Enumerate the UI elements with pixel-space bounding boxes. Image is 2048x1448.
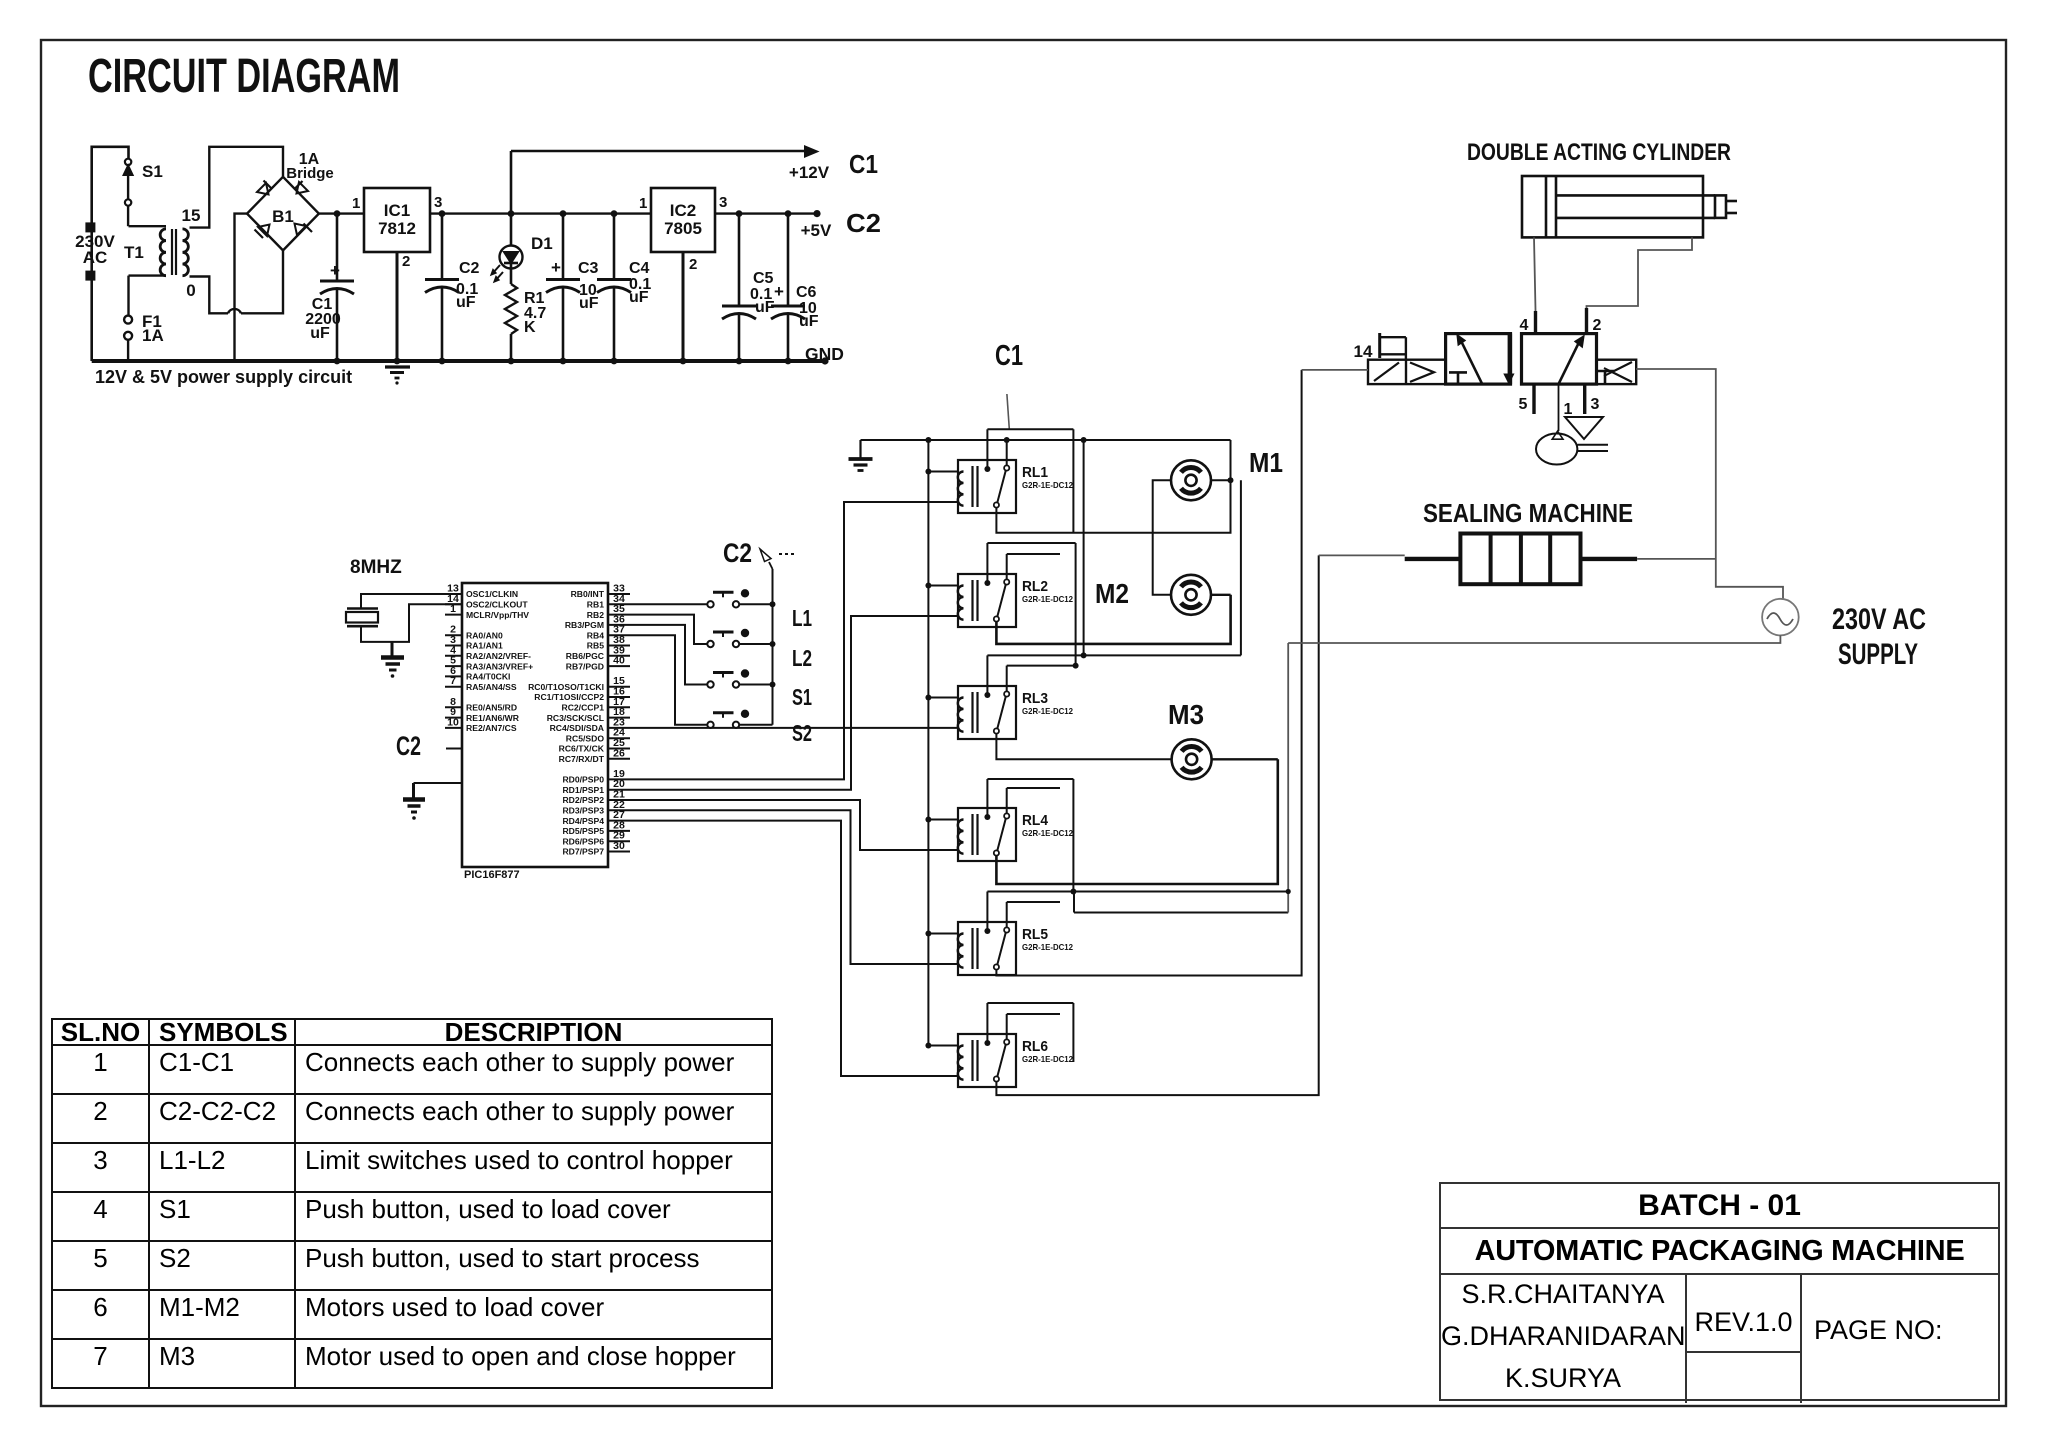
wire S1 to C2 bus [740, 684, 773, 686]
5V rail right of IC2 [715, 212, 817, 214]
node D1 [508, 210, 515, 217]
wire pin34 to L1 [630, 603, 707, 605]
right spring [1597, 360, 1637, 384]
svg-text:RL1: RL1 [1022, 464, 1048, 481]
C2 probe arrow [760, 549, 797, 569]
capacitor C4 0.1uF [613, 214, 616, 280]
svg-text:+: + [551, 258, 561, 277]
svg-text:RC2/CCP1: RC2/CCP1 [561, 703, 604, 713]
svg-text:G2R-1E-DC12: G2R-1E-DC12 [1022, 594, 1073, 604]
pin 34 RB1 [587, 593, 630, 610]
pin 35 RB2 [587, 603, 630, 620]
svg-text:C3: C3 [578, 260, 599, 277]
svg-text:uF: uF [456, 294, 476, 311]
svg-text:L1: L1 [792, 605, 812, 631]
svg-text:2: 2 [1593, 317, 1602, 334]
wire 230V AC left loop [92, 147, 825, 361]
pin 25 RC6/TX/CK [559, 737, 630, 754]
svg-text:1: 1 [352, 195, 360, 212]
svg-text:15: 15 [182, 206, 201, 225]
pin 5 RA3/AN3/VREF+ [445, 655, 533, 672]
wire AC bottom return [1288, 635, 1780, 643]
svg-text:26: 26 [613, 747, 625, 759]
pin 33 RB0/INT [571, 583, 630, 600]
5V rail end dot [813, 210, 820, 217]
pin 19 RD0/PSP0 [562, 768, 630, 785]
node bridge/C1 [334, 210, 341, 217]
svg-text:RB2: RB2 [587, 610, 604, 620]
RL2 blade-top stub [1007, 554, 1060, 580]
wire crystal to pin13 [361, 594, 462, 609]
svg-text:3: 3 [434, 194, 442, 211]
svg-text:230V AC: 230V AC [1832, 603, 1926, 636]
svg-text:RB0/INT: RB0/INT [571, 589, 605, 599]
pin 26 RC7/RX/DT [559, 747, 630, 764]
pin 18 RC3/SCK/SCL [547, 706, 630, 723]
fuse F1 [124, 316, 132, 361]
svg-text:C2: C2 [459, 260, 480, 277]
svg-text:RA3/AN3/VREF+: RA3/AN3/VREF+ [466, 661, 533, 671]
wire RL2 out to M2 loop [996, 595, 1230, 644]
svg-text:RA0/AN0: RA0/AN0 [466, 630, 503, 640]
wire S2 to C2 bus [740, 724, 773, 726]
svg-text:K: K [524, 319, 536, 336]
svg-text:C4: C4 [629, 260, 650, 277]
wire C1 label tail [1007, 394, 1009, 429]
5/2 valve body [1446, 334, 1597, 385]
svg-text:C2: C2 [396, 731, 421, 761]
svg-text:2: 2 [689, 256, 697, 273]
title block [1439, 1182, 2000, 1401]
compressor source [1536, 431, 1608, 464]
motor M3 [1172, 739, 1212, 779]
RL3 blade-top stub [1007, 666, 1076, 692]
svg-text:uF: uF [629, 289, 649, 306]
svg-text:C2: C2 [846, 208, 881, 238]
capacitor C6 10uF [771, 214, 805, 361]
port 4 [1520, 311, 1536, 335]
node C6 [785, 210, 792, 217]
svg-text:2: 2 [402, 253, 410, 270]
svg-text:4: 4 [1520, 317, 1529, 334]
svg-text:0: 0 [186, 281, 195, 300]
wire RC4 to RL3 coil [630, 727, 958, 729]
svg-text:C2: C2 [723, 538, 752, 568]
RL4 blade-top stub [1007, 788, 1060, 814]
wire RD2 to RL4 coil [630, 800, 958, 850]
pin 36 RB3/PGM [565, 613, 630, 630]
capacitor C1 2200uF [320, 214, 354, 361]
svg-text:AC: AC [83, 248, 108, 267]
RL3 outer top [987, 655, 1083, 695]
svg-text:RA2/AN2/VREF-: RA2/AN2/VREF- [466, 651, 531, 661]
wire RL3 out to M3 [996, 733, 1171, 759]
pin 3 RA1/AN1 [445, 634, 503, 651]
svg-text:7812: 7812 [378, 219, 416, 238]
pin 4 RA2/AN2/VREF- [445, 644, 531, 661]
bridge rectifier B1 [247, 177, 319, 251]
svg-text:S1: S1 [792, 684, 812, 710]
RL4 pole riser and outer box [987, 779, 1076, 895]
IC1 7812 [364, 188, 430, 252]
U loop rail to M1 via 1083/1240 [1081, 440, 1241, 658]
svg-text:RL6: RL6 [1022, 1038, 1048, 1055]
push button S1 [707, 669, 749, 687]
terminal square bottom [85, 271, 95, 281]
wire RD0 to RL1 coil [630, 502, 958, 779]
wire IC1 pin2 to ground rail [396, 252, 399, 361]
wire cylinder rod port to valve 2 [1587, 237, 1693, 318]
C2 bus vertical [770, 569, 776, 725]
svg-text:CIRCUIT DIAGRAM: CIRCUIT DIAGRAM [88, 50, 400, 103]
svg-text:7: 7 [450, 675, 456, 687]
wire secondary 15 to bridge [190, 147, 284, 228]
svg-text:8MHZ: 8MHZ [350, 557, 402, 578]
wire RL5 out to valve pilot [996, 370, 1301, 976]
RL5 pole riser and outer box [987, 892, 1288, 932]
switch S1 [124, 159, 133, 227]
wire valve left lead [1302, 369, 1368, 371]
svg-text:RD0/PSP0: RD0/PSP0 [562, 775, 604, 785]
capacitor C5 0.1uF [722, 214, 756, 361]
RL1 pole riser and outer box [987, 429, 1073, 532]
wire sealing left lead [1319, 554, 1405, 556]
wire M3 right [1212, 758, 1278, 760]
svg-text:RB1: RB1 [587, 600, 604, 610]
svg-text:DOUBLE ACTING CYLINDER: DOUBLE ACTING CYLINDER [1467, 139, 1731, 166]
svg-text:SUPPLY: SUPPLY [1838, 638, 1918, 671]
svg-text:30: 30 [613, 840, 625, 852]
pin 21 RD2/PSP2 [562, 789, 630, 806]
pin 16 RC1/T1OSI/CCP2 [534, 686, 630, 703]
svg-text:7805: 7805 [664, 219, 702, 238]
svg-text:RC3/SCK/SCL: RC3/SCK/SCL [547, 713, 604, 723]
pin 30 RD7/PSP7 [562, 840, 630, 857]
pin 10 RE2/AN7/CS [445, 716, 517, 733]
pin 14 OSC2/CLKOUT [445, 593, 528, 610]
svg-text:RC4/SDI/SDA: RC4/SDI/SDA [550, 723, 604, 733]
wire M2 right [1211, 594, 1231, 596]
valve left cell arrows [1449, 335, 1513, 384]
pin 2 RA0/AN0 [445, 624, 503, 641]
IC2 7805 [651, 188, 715, 252]
svg-text:uF: uF [579, 295, 599, 312]
pin 8 RE0/AN5/RD [445, 696, 517, 713]
double acting cylinder [1522, 176, 1737, 237]
wire secondary 0 to bridge bottom [190, 250, 284, 313]
svg-text:G2R-1E-DC12: G2R-1E-DC12 [1022, 828, 1073, 838]
svg-text:M1: M1 [1249, 447, 1283, 478]
svg-text:C1: C1 [995, 340, 1023, 372]
svg-text:RB7/PGD: RB7/PGD [566, 661, 604, 671]
ground at relay rail [849, 440, 873, 471]
svg-text:+: + [330, 261, 340, 280]
svg-text:3: 3 [719, 194, 727, 211]
svg-text:PIC16F877: PIC16F877 [464, 869, 520, 881]
wire M1 left to M2 [1153, 480, 1171, 595]
port 2 [1587, 308, 1602, 335]
svg-text:RB5: RB5 [587, 641, 604, 651]
coil top stubs [928, 472, 958, 1046]
svg-text:T1: T1 [124, 243, 144, 262]
wire L1 to C2 bus [740, 603, 773, 605]
svg-text:40: 40 [613, 655, 625, 667]
exhaust triangle [1565, 417, 1603, 439]
pin 17 RC2/CCP1 [561, 696, 630, 713]
svg-text:RC6/TX/CK: RC6/TX/CK [559, 744, 605, 754]
node C2 cap [439, 210, 446, 217]
ground below MCU C2 [403, 783, 425, 820]
pin 20 RD1/PSP1 [562, 778, 630, 795]
bottom rail node dots [334, 358, 792, 365]
pin 27 RD4/PSP4 [562, 809, 630, 826]
pin 40 RB7/PGD [566, 655, 630, 672]
wire sealing right lead [1637, 558, 1716, 560]
svg-text:RC1/T1OSI/CCP2: RC1/T1OSI/CCP2 [534, 692, 604, 702]
svg-text:RL5: RL5 [1022, 926, 1048, 943]
svg-text:C6: C6 [796, 284, 817, 301]
wire C2 stub [446, 748, 462, 750]
svg-text:D1: D1 [531, 234, 553, 253]
pin 15 RC0/T1OSO/T1CKI [528, 675, 630, 692]
capacitor C2 0.1uF [441, 214, 444, 280]
svg-text:RD5/PSP5: RD5/PSP5 [562, 826, 604, 836]
wire rail corner to M1 [1230, 440, 1232, 480]
transformer T1 [129, 226, 189, 316]
svg-text:RD3/PSP3: RD3/PSP3 [562, 806, 604, 816]
RL2 pole riser and outer box [987, 543, 1078, 669]
svg-text:S2: S2 [792, 720, 812, 746]
svg-text:uF: uF [799, 313, 819, 330]
relay RL5 G2R-1E-DC12 [958, 922, 1016, 975]
svg-text:IC2: IC2 [670, 201, 696, 220]
crystal 8MHZ [346, 609, 378, 627]
bottom rail end dot [821, 357, 828, 364]
pin 7 RA5/AN4/SS [445, 675, 517, 692]
wire bridge to IC1 (12V rail) [319, 212, 364, 214]
limit switch L2 [707, 629, 749, 647]
svg-text:14: 14 [1354, 342, 1373, 361]
svg-text:S1: S1 [142, 162, 163, 181]
LED D1 [491, 214, 523, 284]
svg-text:RA5/AN4/SS: RA5/AN4/SS [466, 682, 517, 692]
wire RD3 to RL5 coil [630, 810, 958, 964]
pin 28 RD5/PSP5 [562, 819, 630, 836]
svg-text:C1: C1 [849, 149, 878, 179]
sealing machine element [1405, 534, 1637, 585]
svg-text:RD2/PSP2: RD2/PSP2 [562, 795, 604, 805]
svg-text:RC0/T1OSO/T1CKI: RC0/T1OSO/T1CKI [528, 682, 604, 692]
svg-text:G2R-1E-DC12: G2R-1E-DC12 [1022, 942, 1073, 952]
svg-text:RD1/PSP1: RD1/PSP1 [562, 785, 604, 795]
wire RL1 switch out to M1 loop [996, 480, 1230, 532]
symbols description table [51, 1018, 773, 1389]
svg-text:G2R-1E-DC12: G2R-1E-DC12 [1022, 1054, 1073, 1064]
wire RD1 to RL2 coil [630, 616, 958, 790]
wire pin35 to L2 [630, 615, 707, 644]
svg-text:1A: 1A [142, 326, 164, 345]
svg-text:M3: M3 [1168, 699, 1204, 730]
wire RD4 to RL6 coil [630, 821, 958, 1076]
wire pin37 to S2 [630, 635, 707, 725]
svg-text:+: + [774, 282, 784, 301]
svg-text:3: 3 [1591, 396, 1600, 413]
svg-text:IC1: IC1 [384, 201, 410, 220]
pin 1 MCLR/Vpp/THV [445, 603, 529, 620]
svg-text:RB6/PGC: RB6/PGC [566, 651, 604, 661]
svg-text:10: 10 [447, 716, 459, 728]
relay RL3 G2R-1E-DC12 [958, 686, 1016, 739]
pin 29 RD6/PSP6 [562, 830, 630, 847]
svg-text:RD4/PSP4: RD4/PSP4 [562, 816, 604, 826]
wire pin36 to S1 [630, 625, 707, 685]
+12V top rail [511, 147, 817, 214]
main 12V rail [430, 212, 651, 214]
svg-text:RE1/AN6/WR: RE1/AN6/WR [466, 713, 520, 723]
node C3 [560, 210, 567, 217]
svg-text:RA1/AN1: RA1/AN1 [466, 641, 503, 651]
relay RL1 G2R-1E-DC12 [958, 460, 1016, 513]
port 5 [1519, 383, 1534, 414]
svg-text:L2: L2 [792, 645, 812, 671]
svg-text:RC5/SDO: RC5/SDO [566, 733, 605, 743]
wire crystal to pin14 [361, 604, 462, 642]
RL6 pole riser and outer box [987, 1003, 1073, 1062]
AC return vertical to relays [1073, 643, 1290, 913]
svg-text:+5V: +5V [801, 221, 832, 240]
svg-text:1: 1 [1564, 401, 1573, 418]
svg-text:RD6/PSP6: RD6/PSP6 [562, 836, 604, 846]
svg-text:+12V: +12V [789, 163, 830, 182]
svg-text:G2R-1E-DC12: G2R-1E-DC12 [1022, 480, 1073, 490]
microcontroller PIC16F877 [462, 583, 608, 881]
node M1 right [1228, 477, 1234, 483]
svg-text:RB3/PGM: RB3/PGM [565, 620, 604, 630]
resistor R1 4.7K [505, 284, 517, 361]
left pilot solenoid box [1368, 360, 1446, 384]
node C5 [736, 210, 743, 217]
wire M1 right [1211, 479, 1231, 481]
svg-text:12V & 5V power supply circuit: 12V & 5V power supply circuit [95, 367, 352, 387]
wire IC2 pin2 down [682, 252, 685, 361]
terminal square top [85, 222, 95, 232]
relay top rail (C1 net) [861, 437, 1231, 443]
relay RL6 G2R-1E-DC12 [958, 1034, 1016, 1087]
svg-text:5: 5 [1519, 396, 1528, 413]
wire ground stub MCU [414, 782, 463, 784]
svg-text:RA4/T0CKI: RA4/T0CKI [466, 672, 510, 682]
svg-text:RL3: RL3 [1022, 690, 1048, 707]
limit switch L1 [707, 589, 749, 607]
wire RL4 out to M3 loop [996, 759, 1277, 884]
pin 38 RB5 [587, 634, 630, 651]
svg-text:RL2: RL2 [1022, 578, 1048, 595]
valve right cell arrows [1559, 337, 1615, 385]
svg-text:1: 1 [639, 195, 647, 212]
svg-text:MCLR/Vpp/THV: MCLR/Vpp/THV [466, 610, 529, 620]
wire RL6 out to sealing machine [996, 555, 1318, 1095]
wire cylinder cap port to valve 4 [1534, 237, 1536, 318]
relay RL2 G2R-1E-DC12 [958, 574, 1016, 627]
pin 23 RC4/SDI/SDA [550, 716, 630, 733]
svg-text:B1: B1 [272, 207, 294, 226]
node C4 [611, 210, 618, 217]
RL5 blade-top stub [1007, 902, 1060, 928]
motor M1 [1171, 460, 1211, 500]
pin 13 OSC1/CLKIN [445, 583, 518, 600]
pin 24 RC5/SDO [566, 727, 630, 744]
svg-text:RL4: RL4 [1022, 812, 1049, 829]
port 3 [1585, 383, 1600, 414]
wire bridge left to bottom rail [235, 214, 248, 361]
pilot port 14 [1354, 333, 1406, 361]
svg-text:RE0/AN5/RD: RE0/AN5/RD [466, 703, 517, 713]
earth ground under IC1 [385, 367, 410, 385]
svg-text:OSC2/CLKOUT: OSC2/CLKOUT [466, 600, 528, 610]
svg-text:C5: C5 [753, 270, 774, 287]
pin 6 RA4/T0CKI [445, 665, 510, 682]
svg-text:M2: M2 [1095, 578, 1129, 609]
AC source 230V [1762, 599, 1799, 636]
capacitor C3 10uF [546, 214, 580, 361]
svg-text:OSC1/CLKIN: OSC1/CLKIN [466, 589, 518, 599]
svg-text:RE2/AN7/CS: RE2/AN7/CS [466, 723, 517, 733]
pin 9 RE1/AN6/WR [445, 706, 520, 723]
svg-text:RB4: RB4 [587, 630, 604, 640]
pin 22 RD3/PSP3 [562, 799, 630, 816]
svg-text:uF: uF [310, 325, 330, 342]
pin 39 RB6/PGC [566, 644, 630, 661]
port 1 [1559, 383, 1573, 431]
wire L2 to C2 bus [740, 643, 773, 645]
push button S2 [707, 710, 749, 728]
ground below crystal [381, 642, 404, 678]
svg-text:RD7/PSP7: RD7/PSP7 [562, 847, 604, 857]
svg-text:G2R-1E-DC12: G2R-1E-DC12 [1022, 706, 1073, 716]
svg-text:RC7/RX/DT: RC7/RX/DT [559, 754, 605, 764]
svg-text:Bridge: Bridge [286, 165, 334, 182]
wire valve right lead to AC [1636, 369, 1783, 599]
svg-text:SEALING MACHINE: SEALING MACHINE [1423, 498, 1633, 528]
relay RL4 G2R-1E-DC12 [958, 808, 1016, 861]
motor M2 [1171, 575, 1211, 615]
coil supply bus vertical [925, 440, 931, 1049]
RL6 blade-top stub [1007, 1014, 1060, 1040]
pin 37 RB4 [587, 624, 630, 641]
